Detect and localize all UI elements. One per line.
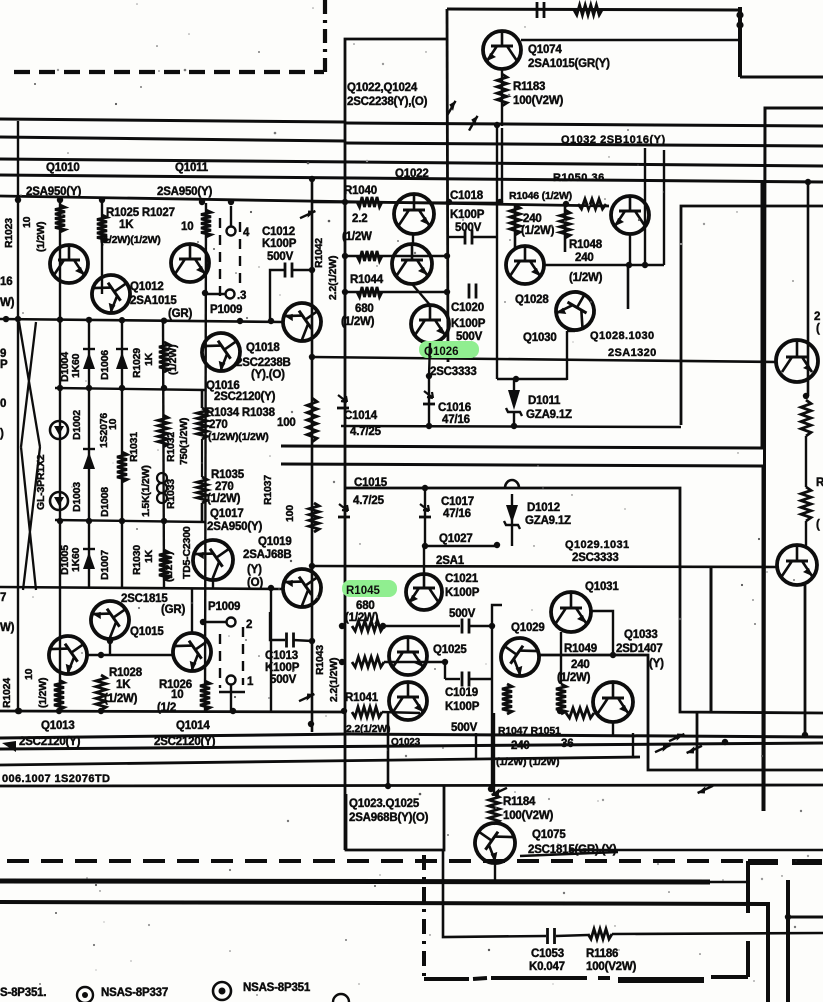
- diode D1004: [83, 352, 95, 369]
- resistor R1044 body: [357, 287, 382, 297]
- svg-text:R1183: R1183: [513, 81, 545, 93]
- rail y711: [0, 711, 345, 712]
- wire d1012: [511, 494, 513, 546]
- node dot: [736, 21, 743, 28]
- resistor R1023 body: [55, 205, 65, 232]
- wire q1031 em: [560, 632, 562, 684]
- svg-text:R1040: R1040: [344, 185, 377, 197]
- svg-text:GZA9.1Z: GZA9.1Z: [526, 409, 572, 421]
- svg-text:1K60: 1K60: [70, 547, 82, 572]
- svg-text:(1/2W)(1/2W): (1/2W)(1/2W): [100, 234, 161, 246]
- wire Q1074 collector: [521, 39, 740, 42]
- wire top-right y77: [740, 76, 823, 79]
- wire q1030b: [567, 330, 575, 332]
- svg-text:D1002: D1002: [71, 410, 83, 440]
- transistor Q1012 sym: [85, 268, 138, 321]
- node: [119, 317, 125, 323]
- transistor Q1030 sym: [549, 285, 601, 337]
- transistor right-top: [776, 340, 818, 382]
- rail R1: [0, 119, 345, 122]
- transistor Q1018: [276, 296, 329, 349]
- wire bus x312: [311, 179, 314, 732]
- node: [15, 708, 21, 714]
- wire q1017 em: [212, 580, 214, 589]
- svg-text:2: 2: [246, 619, 252, 631]
- node: [426, 373, 432, 379]
- svg-text:C1018: C1018: [450, 190, 484, 202]
- svg-text:2SA950(Y): 2SA950(Y): [157, 186, 212, 198]
- svg-text:006.1007 1S2076TD: 006.1007 1S2076TD: [2, 773, 110, 785]
- node: [342, 253, 348, 259]
- svg-text:P1009: P1009: [208, 601, 240, 613]
- wire c1018b: [472, 236, 497, 238]
- svg-text:Q1011: Q1011: [175, 162, 209, 174]
- svg-text:(GR): (GR): [161, 604, 185, 616]
- svg-text:240: 240: [571, 659, 590, 671]
- node: [119, 518, 125, 524]
- transistor Q1075: [467, 815, 523, 871]
- node: [15, 316, 21, 322]
- wire q1031 col: [591, 611, 613, 655]
- svg-text:Q1029.1031: Q1029.1031: [565, 539, 630, 551]
- rail R12: [281, 464, 763, 811]
- junction arrow: [492, 784, 507, 799]
- transistor Q1025b: [389, 682, 427, 720]
- node: [488, 786, 494, 792]
- terminal P1009-3: [226, 290, 235, 299]
- svg-text:Q1013: Q1013: [41, 720, 75, 732]
- svg-text:680: 680: [356, 600, 375, 612]
- svg-text:R1045: R1045: [346, 585, 380, 597]
- wire dash-dot border vertical: [323, 0, 327, 73]
- node: [497, 199, 503, 205]
- resistor R1028 body: [96, 675, 106, 710]
- resistor top: [574, 5, 602, 15]
- svg-text:W): W): [0, 622, 15, 634]
- rail y426: [341, 426, 681, 427]
- node: [99, 197, 105, 203]
- svg-text:R1041: R1041: [345, 692, 379, 704]
- svg-text:Q1010: Q1010: [46, 162, 80, 174]
- connector diagonals: [19, 322, 40, 590]
- wire y662: [384, 661, 445, 663]
- svg-text:(1/2W)(1/2W): (1/2W)(1/2W): [208, 431, 269, 443]
- wire dash y978: [424, 978, 610, 979]
- node: [426, 423, 432, 429]
- svg-text:(1/2W): (1/2W): [35, 222, 47, 252]
- svg-text:.3: .3: [237, 290, 246, 302]
- svg-text:(Y): (Y): [247, 564, 262, 576]
- rail y522: [55, 520, 205, 522]
- wire dash y977 r: [711, 975, 748, 979]
- capacitor top: [536, 2, 539, 18]
- svg-text:R1037: R1037: [262, 475, 274, 505]
- svg-text:Q1017: Q1017: [210, 508, 244, 520]
- resistor R1049 body: [556, 684, 566, 714]
- svg-text:Q1075: Q1075: [532, 829, 566, 841]
- svg-text:1K: 1K: [116, 679, 131, 691]
- svg-text:Q1022: Q1022: [395, 168, 429, 180]
- svg-text:R1030: R1030: [131, 545, 143, 575]
- rail y902: [0, 902, 768, 1002]
- svg-text:Q1030: Q1030: [523, 332, 557, 344]
- svg-text:500V: 500V: [267, 251, 294, 263]
- wire C1012 right: [292, 269, 312, 271]
- green highlight Q1026: [419, 341, 479, 358]
- svg-text:10: 10: [107, 418, 119, 430]
- node: [237, 318, 243, 324]
- node: [489, 623, 495, 629]
- svg-text:500V: 500V: [270, 674, 297, 686]
- wire r1046 stem: [514, 204, 517, 248]
- rail R1 right: [345, 123, 823, 126]
- wire dash x424: [422, 855, 426, 979]
- wire C1012 left: [270, 270, 284, 319]
- wire term2: [200, 621, 226, 623]
- wire q1075 b: [494, 863, 496, 881]
- node: [422, 543, 428, 549]
- node: [86, 317, 92, 323]
- capacitor C1018: [464, 230, 467, 245]
- svg-text:): ): [0, 428, 4, 440]
- resistor right2: [801, 487, 811, 521]
- wire vertical x447: [447, 9, 448, 362]
- node: [444, 253, 450, 259]
- resistor R1034: [197, 408, 207, 439]
- junction arrow: [299, 690, 314, 705]
- wire dashed b: [239, 222, 241, 288]
- rail y881: [0, 881, 710, 882]
- node: [610, 652, 616, 658]
- capacitor C1016: [424, 391, 433, 398]
- node: [442, 659, 448, 665]
- wire x202 seg: [201, 439, 203, 477]
- svg-text:K100P: K100P: [262, 238, 297, 250]
- svg-text:K100P: K100P: [445, 701, 480, 713]
- svg-text:2SA1320: 2SA1320: [608, 347, 657, 359]
- svg-text:R1028: R1028: [109, 667, 143, 679]
- resistor R1047: [502, 684, 512, 714]
- svg-text:10: 10: [171, 689, 183, 701]
- svg-text:(: (: [816, 519, 820, 531]
- svg-text:Q1029: Q1029: [511, 622, 545, 634]
- transistor Q1014 sym: [166, 626, 219, 679]
- label 0.3 terminal wire: [205, 293, 225, 295]
- svg-text:NSAS-8P351: NSAS-8P351: [243, 982, 311, 994]
- svg-text:R1043: R1043: [314, 645, 326, 675]
- svg-text:GZA9.1Z: GZA9.1Z: [525, 515, 571, 527]
- svg-text:10: 10: [181, 221, 193, 233]
- wire dash y980 thick: [618, 977, 704, 983]
- transistor Q1017 sym: [185, 532, 241, 588]
- rail R14: [425, 545, 499, 548]
- svg-text:4.7/25: 4.7/25: [350, 426, 382, 438]
- wire y712 ext: [382, 712, 420, 713]
- node: [16, 708, 22, 714]
- transistor Q1032 sym: [611, 196, 649, 234]
- svg-text:500V: 500V: [451, 722, 478, 734]
- svg-text:Q1074: Q1074: [528, 44, 562, 56]
- wire x808: [807, 182, 810, 396]
- transistor Q1013 sym: [42, 629, 95, 682]
- transistor Q1022: [394, 194, 434, 234]
- svg-text:C1021: C1021: [445, 573, 479, 585]
- node: [513, 376, 519, 382]
- node: [511, 423, 517, 429]
- transistor Q1011 sym: [171, 244, 209, 282]
- wire top rail y10: [447, 9, 738, 10]
- svg-text:(1/2W): (1/2W): [569, 272, 603, 284]
- svg-text:7: 7: [0, 592, 6, 604]
- transistor Q1031 sym: [551, 592, 591, 632]
- wire x806 mid: [805, 436, 807, 487]
- node: [446, 199, 452, 205]
- wire q1026 em: [429, 343, 430, 376]
- svg-text:1K: 1K: [119, 219, 134, 231]
- wire hop: [505, 480, 519, 488]
- wire term1 foot: [219, 684, 245, 711]
- svg-text:K0.047: K0.047: [529, 961, 565, 973]
- svg-text:R1186: R1186: [586, 948, 618, 960]
- diode D1006: [116, 352, 128, 369]
- node: [803, 393, 809, 399]
- rail mid y202: [312, 202, 502, 203]
- svg-text:500V: 500V: [455, 222, 482, 234]
- wire y655 left: [87, 654, 173, 656]
- wire x425: [424, 488, 426, 546]
- diode D1007: [83, 552, 95, 569]
- svg-text:D1008: D1008: [99, 487, 111, 517]
- node: [342, 289, 348, 295]
- node: [642, 262, 648, 268]
- rail y760: [0, 757, 640, 765]
- transistor Q1026: [411, 305, 449, 343]
- svg-text:R1025 R1027: R1025 R1027: [106, 207, 175, 219]
- node: [86, 385, 92, 391]
- resistor R1026 body: [200, 681, 210, 710]
- svg-text:Q1025: Q1025: [433, 644, 467, 656]
- node: [57, 385, 63, 391]
- wire y917: [788, 916, 823, 919]
- node: [199, 199, 205, 205]
- svg-text:R1049: R1049: [564, 643, 597, 655]
- svg-text:C1017: C1017: [441, 496, 474, 508]
- node: [202, 290, 208, 296]
- svg-text:S-8P351.: S-8P351.: [0, 987, 46, 999]
- node: [563, 201, 569, 207]
- svg-text:2.2: 2.2: [352, 213, 367, 225]
- wire y626b: [469, 625, 492, 627]
- node: [86, 518, 92, 524]
- svg-text:(1/2W): (1/2W): [37, 678, 49, 708]
- resistor R1045 body: [352, 621, 384, 631]
- rail R13: [344, 488, 823, 713]
- resistor R1042 body: [357, 251, 382, 261]
- rail R2: [0, 137, 345, 141]
- svg-text:2SC3333: 2SC3333: [430, 366, 477, 378]
- label box Q1022,Q1024: [345, 39, 447, 850]
- node: [380, 623, 386, 629]
- svg-text:10: 10: [23, 668, 35, 680]
- rail y786: [0, 785, 823, 786]
- resistor R1024 body: [54, 680, 64, 710]
- svg-text:K100P: K100P: [265, 662, 300, 674]
- capacitor C1012: [284, 263, 287, 278]
- svg-text:C1012: C1012: [262, 226, 295, 238]
- svg-text:2.2(1/2W): 2.2(1/2W): [328, 658, 340, 702]
- svg-text:R1024: R1024: [1, 678, 13, 708]
- svg-text:Q1014: Q1014: [176, 720, 210, 732]
- svg-text:(1/2W): (1/2W): [557, 672, 591, 684]
- wire r1034 top: [201, 390, 204, 408]
- svg-text:TD5-C2300: TD5-C2300: [181, 526, 193, 579]
- capacitor C1013: [285, 633, 288, 648]
- wire q1014 base: [191, 589, 193, 633]
- svg-text:(O): (O): [247, 577, 263, 589]
- wire C1053 run: [443, 850, 823, 937]
- svg-text:100: 100: [284, 505, 296, 522]
- svg-text:R1048: R1048: [569, 239, 603, 251]
- svg-text:R1035: R1035: [211, 469, 245, 481]
- svg-text:2SA968B(Y)(O): 2SA968B(Y)(O): [349, 812, 429, 824]
- svg-text:240: 240: [575, 252, 594, 264]
- svg-text:D1007: D1007: [99, 550, 111, 580]
- svg-text:2.2(1/2W): 2.2(1/2W): [327, 256, 339, 300]
- resistor R1027 body: [201, 210, 211, 237]
- symbol circle b: [213, 982, 231, 1000]
- wire y626a: [384, 625, 460, 627]
- resistor R1040: [357, 197, 382, 207]
- resistor R1038: [307, 398, 317, 442]
- svg-text:2SC2238(Y),(O): 2SC2238(Y),(O): [347, 96, 428, 108]
- svg-text:R1032: R1032: [165, 432, 177, 462]
- transistor Q1033 sym: [593, 682, 633, 722]
- wire q1032 em: [629, 234, 631, 265]
- svg-text:(1/2W: (1/2W: [342, 231, 372, 243]
- wire r1042 rail: [345, 255, 447, 257]
- rail y743: [0, 743, 823, 749]
- svg-text:R1046 (1/2W): R1046 (1/2W): [509, 190, 572, 202]
- wire c1016 v: [428, 376, 430, 427]
- junction arrow: [300, 207, 315, 222]
- rail R7: [312, 357, 776, 362]
- node: [309, 176, 315, 182]
- svg-text:47/16: 47/16: [443, 508, 471, 520]
- led D1002: [50, 421, 68, 439]
- svg-text:100: 100: [277, 417, 296, 429]
- node: [308, 721, 314, 727]
- svg-text:2SA950(Y): 2SA950(Y): [207, 521, 262, 533]
- transistor Q1019 sym: [276, 562, 329, 615]
- resistor R1186: [588, 929, 612, 939]
- resistor R1030: [159, 550, 169, 580]
- svg-text:R1050 36: R1050 36: [553, 172, 605, 184]
- rail y855 left: [520, 852, 618, 856]
- svg-text:500V: 500V: [449, 608, 476, 620]
- node: [802, 732, 808, 738]
- resistor R1037: [309, 503, 319, 532]
- transistor Q1015 sym: [84, 594, 137, 647]
- wire v645: [644, 148, 646, 265]
- svg-text:R1184: R1184: [503, 796, 536, 808]
- node: [309, 267, 315, 273]
- wire top-right corner: [764, 108, 823, 811]
- rail dashed y861: [7, 859, 744, 863]
- svg-text:4: 4: [243, 227, 250, 239]
- transistor right-bot: [777, 545, 817, 585]
- svg-text:2SC3333: 2SC3333: [572, 552, 619, 564]
- svg-text:2SC2120(Y): 2SC2120(Y): [214, 391, 276, 403]
- noise speckle: [524, 26, 525, 27]
- wire dashed border top-left: [14, 70, 324, 74]
- svg-text:16: 16: [0, 276, 12, 288]
- node: [228, 199, 234, 205]
- resistor R1050: [578, 199, 606, 209]
- resistor R1043 body: [352, 657, 384, 667]
- wire x805 low: [804, 585, 807, 735]
- node: [57, 197, 63, 203]
- svg-text:2SA950(Y): 2SA950(Y): [26, 186, 81, 198]
- svg-text:2SC2120(Y): 2SC2120(Y): [19, 736, 81, 748]
- wire y265: [544, 264, 664, 266]
- wire x567: [566, 331, 568, 380]
- svg-text:2SD1407: 2SD1407: [616, 643, 663, 655]
- resistor R1048: [560, 210, 570, 238]
- wire bus x206: [205, 203, 206, 711]
- svg-text:D1012: D1012: [527, 502, 560, 514]
- wire x476 stub: [475, 733, 477, 758]
- svg-text:(1/2W): (1/2W): [163, 552, 175, 582]
- svg-text:(1/2W): (1/2W): [341, 316, 375, 328]
- coil loops: [157, 473, 167, 483]
- wire x633 stub: [632, 733, 634, 758]
- node top-right stub: [738, 7, 742, 77]
- svg-text:Q1032 2SB1016(Y): Q1032 2SB1016(Y): [561, 134, 666, 146]
- node: [57, 518, 63, 524]
- node: [805, 179, 811, 185]
- svg-text:2SC2238B: 2SC2238B: [236, 357, 291, 369]
- svg-text:(: (: [816, 323, 820, 335]
- node: [57, 316, 63, 322]
- svg-text:Q1022,Q1024: Q1022,Q1024: [347, 82, 418, 94]
- svg-text:(Y).(O): (Y).(O): [251, 369, 285, 381]
- svg-text:750(1/2W): 750(1/2W): [178, 418, 190, 465]
- capacitor C1014: [338, 395, 347, 402]
- label box Q1023: [346, 786, 444, 850]
- wire dashed c: [219, 634, 221, 688]
- node: [341, 708, 347, 714]
- svg-text:2SAJ68B: 2SAJ68B: [243, 549, 291, 561]
- svg-text:(1/2W): (1/2W): [167, 345, 179, 375]
- svg-text:Q1018: Q1018: [246, 342, 280, 354]
- svg-text:R1031: R1031: [128, 432, 140, 462]
- node: [161, 518, 167, 524]
- node: [339, 659, 345, 665]
- wire q col: [412, 234, 414, 244]
- svg-text:Q1019: Q1019: [258, 536, 292, 548]
- wire bus x164: [163, 320, 164, 588]
- resistor R1051 body: [566, 708, 594, 718]
- node: [3, 316, 9, 322]
- wire x806 low: [805, 521, 807, 546]
- junction arrow: [698, 782, 713, 797]
- svg-text:4.7/25: 4.7/25: [353, 495, 385, 507]
- wire bus x60: [59, 201, 61, 711]
- svg-text:(Y): (Y): [649, 658, 664, 670]
- rail R11: [281, 182, 762, 448]
- svg-text:10: 10: [21, 216, 33, 228]
- transistor Q1028 sym: [506, 246, 544, 284]
